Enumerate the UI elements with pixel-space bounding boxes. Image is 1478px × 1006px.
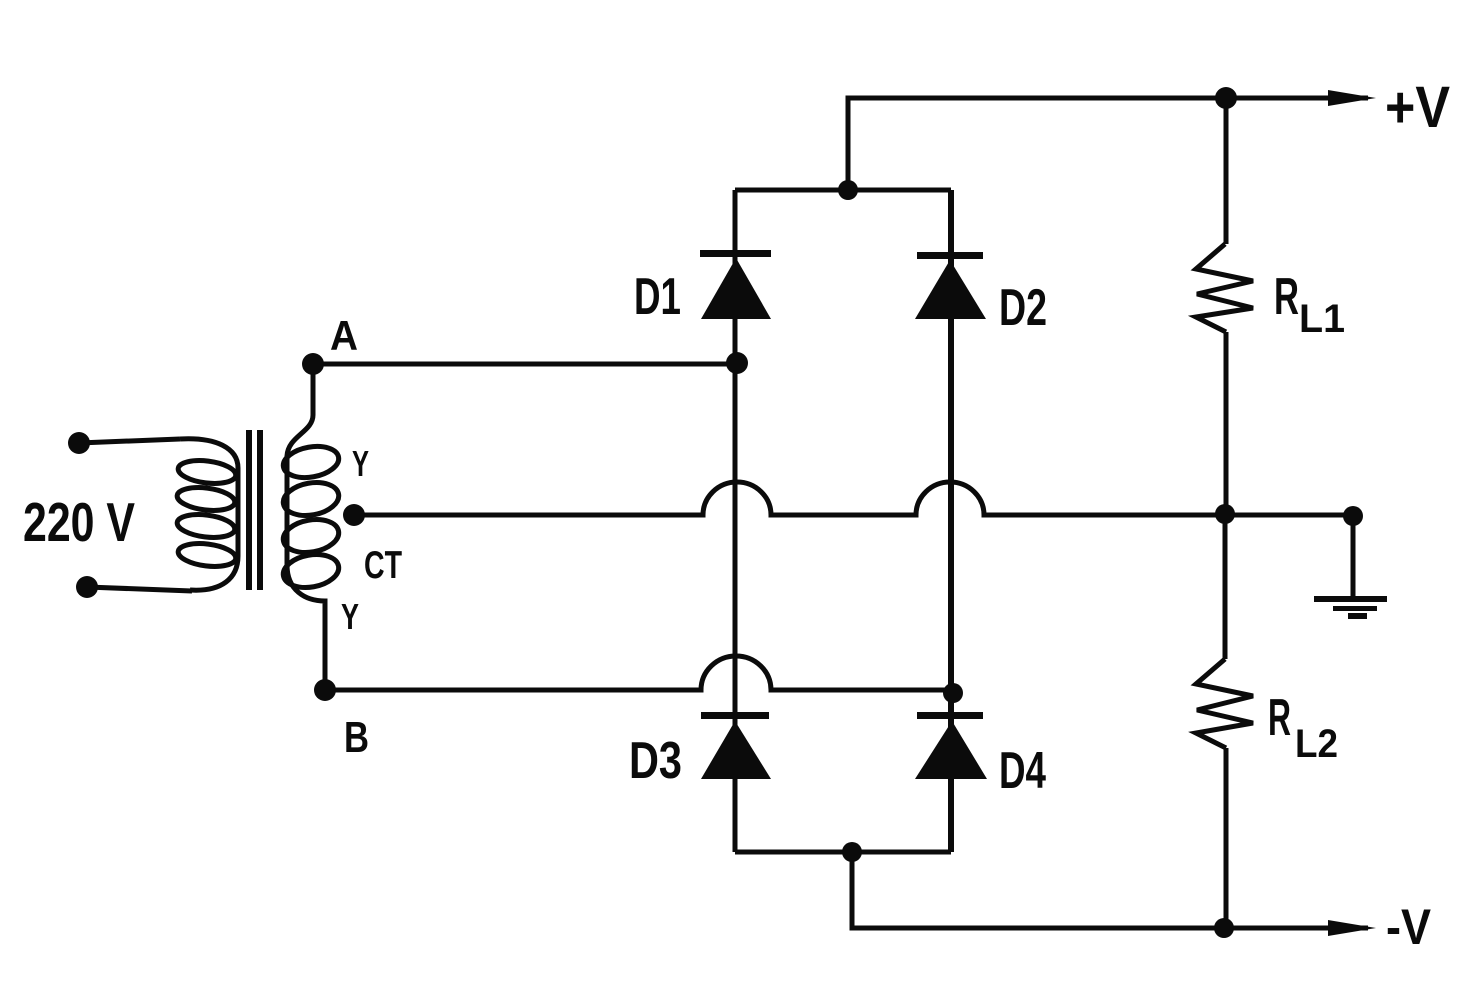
svg-text:R: R bbox=[1268, 689, 1291, 747]
svg-text:D1: D1 bbox=[634, 268, 681, 326]
svg-text:Y: Y bbox=[341, 596, 359, 637]
svg-text:D3: D3 bbox=[629, 732, 682, 790]
svg-text:L1: L1 bbox=[1299, 297, 1345, 341]
svg-text:L2: L2 bbox=[1295, 722, 1338, 766]
svg-text:D4: D4 bbox=[999, 742, 1046, 800]
svg-text:CT: CT bbox=[364, 544, 402, 587]
svg-text:Y: Y bbox=[352, 443, 369, 484]
svg-text:A: A bbox=[330, 312, 358, 359]
svg-text:B: B bbox=[344, 713, 369, 762]
svg-text:D2: D2 bbox=[999, 279, 1047, 337]
svg-text:+V: +V bbox=[1385, 75, 1450, 140]
svg-text:220 V: 220 V bbox=[23, 491, 135, 553]
svg-text:R: R bbox=[1274, 268, 1299, 326]
svg-text:-V: -V bbox=[1386, 899, 1432, 955]
